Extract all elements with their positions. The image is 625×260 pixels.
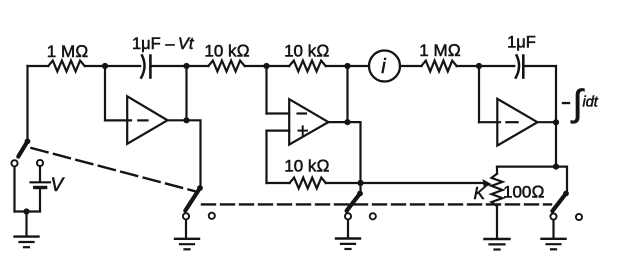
svg-text:1μF – Vt: 1μF – Vt	[132, 35, 195, 53]
wire: R2 to node C	[245, 65, 267, 67]
wire: node G jog right and down through wiper junction to switch S3	[348, 122, 361, 192]
switch S4 alternate contact	[576, 214, 582, 220]
ground (under switch S3)	[336, 239, 360, 250]
wire: ground stem	[25, 212, 27, 236]
wire: ganged-switch linkage (dashed diagonal S1 to S2)	[25, 146, 196, 191]
resistor 10 kΩ (U2 feedback resistor on top rail)	[289, 61, 326, 72]
svg-text:1 MΩ: 1 MΩ	[419, 41, 460, 60]
wire: node F jog right and down to switch S2	[187, 120, 201, 186]
switch S4 pivot contact	[563, 191, 569, 197]
wire: node C to R3	[267, 65, 290, 67]
wire: battery to bottom rail	[39, 189, 41, 211]
ground (battery circuit)	[15, 237, 39, 248]
wire: U1 output to node F	[168, 119, 187, 121]
output label -∫idt	[562, 83, 599, 124]
switch S2 pivot contact	[197, 185, 203, 191]
wire: S2 contact to ground	[185, 220, 187, 238]
op-amp U1 inverting input mark (dash)	[138, 119, 147, 121]
wire: node G up to node D (feedback via R3)	[346, 66, 348, 122]
svg-text:1μF: 1μF	[507, 34, 536, 52]
wire: ganged-switch linkage (dashed horizontal S2 to S4)	[202, 203, 551, 205]
wire: C1 to node B	[152, 65, 186, 67]
potentiometer wiper arrowhead	[483, 179, 492, 188]
wire: node D to ammeter	[348, 65, 370, 67]
svg-text:K: K	[474, 183, 487, 203]
node D (U2 output net on top rail)	[344, 63, 350, 69]
switch S3 alternate contact	[370, 213, 376, 219]
op-amp U2 non-inverting input mark (plus)	[299, 126, 308, 134]
node A (summing junction of op-amp U1)	[102, 63, 108, 69]
switch S1 pivot contact	[25, 138, 31, 144]
op-amp U2 inverting input mark (dash)	[298, 112, 306, 114]
capacitor 1 μF (integrator feedback cap of U3, curved plate)	[516, 55, 519, 77]
resistor 1 MΩ (input resistor, top-left)	[48, 61, 84, 72]
switch S3 blade (open, thrown down-left)	[347, 194, 360, 211]
potentiometer K 100 Ω (vertical resistor body)	[492, 174, 503, 206]
switch S3 pivot contact	[357, 191, 363, 197]
wire: feedback row to R5	[267, 182, 290, 184]
wire: S3 contact to ground	[347, 220, 349, 238]
junction at bottom rail ground tap	[23, 208, 29, 214]
wire: node I jog right and down to switch S4	[556, 167, 567, 192]
ground (under switch S4)	[542, 239, 566, 250]
wire: U3 output to node H	[538, 121, 557, 123]
svg-text:i: i	[381, 56, 386, 78]
wire: U2 inverting input horizontal	[267, 112, 290, 114]
wire: R3 to node D	[326, 65, 348, 67]
op-amp U2 (second amplifier triangle)	[289, 99, 328, 144]
node H (U3 output junction, -∫idt net)	[553, 119, 559, 125]
wire: top rail left segment from input corner to R1	[28, 65, 49, 67]
wire: C2 to top-right corner, down to U3 output	[525, 66, 556, 122]
wire: R4 to node E	[457, 65, 479, 67]
switch S1 fixed contact (to battery ground loop)	[11, 160, 17, 166]
battery V long plate	[31, 181, 51, 183]
wire: node I left to potentiometer top	[497, 166, 556, 168]
wire: U2 non-inverting input horizontal	[267, 130, 290, 132]
op-amp U3 (integrator amplifier triangle)	[497, 99, 537, 146]
svg-text:V: V	[51, 175, 66, 196]
svg-text:idt: idt	[583, 95, 599, 111]
switch S4 fixed contact (to ground)	[550, 213, 556, 219]
wire: feedback from node F up to node B (capacitor C1 net)	[185, 66, 187, 120]
switch S2 blade (open, thrown down-left)	[185, 188, 200, 211]
wire: potentiometer bottom lead to ground	[496, 206, 498, 238]
battery V short plate	[35, 186, 46, 189]
wire: S1 left contact down to bottom rail	[13, 167, 15, 212]
wire: U2 output to node G	[328, 121, 347, 123]
svg-text:100Ω: 100Ω	[503, 183, 544, 202]
wire: node A to capacitor C1	[105, 65, 140, 67]
wire: U3 input horizontal	[479, 121, 500, 123]
wire: node E down to U3 input	[478, 66, 480, 122]
ammeter i (circle meter symbol)	[369, 51, 400, 82]
junction of wiper line with U2 output drop wire	[357, 180, 363, 186]
node F (U1 output junction)	[183, 117, 189, 123]
wire: node E to capacitor C2	[479, 65, 514, 67]
op-amp U3 inverting input mark (dash)	[506, 121, 517, 123]
wire: R1 to node A	[85, 65, 105, 67]
wire: U2 non-inverting input down to positive feedback row	[265, 131, 267, 183]
svg-text:10 kΩ: 10 kΩ	[204, 42, 249, 61]
wire: potentiometer top lead	[496, 167, 498, 174]
node C (U2 inverting input net)	[263, 63, 269, 69]
svg-text:10 kΩ: 10 kΩ	[284, 42, 329, 61]
wire: node C down to U2 inverting input	[265, 66, 267, 114]
wire: feedback row to potentiometer wiper (arrow line)	[326, 182, 485, 184]
switch S2 alternate contact	[209, 213, 215, 219]
wire: S1 right contact down to battery	[39, 166, 41, 181]
wire: ammeter to R4	[400, 65, 421, 67]
wire: S4 contact to ground	[552, 220, 554, 238]
resistor 10 kΩ (positive feedback resistor below U2)	[290, 178, 326, 189]
resistor 10 kΩ (between U1 output and U2 input)	[208, 61, 244, 72]
wire: bottom rail joining battery branch and S1 branch	[15, 210, 41, 212]
op-amp U1 (first amplifier triangle)	[127, 96, 167, 144]
capacitor 1 μF straight plate	[522, 56, 525, 78]
capacitor 1 μF (integrator feedback cap, curved plate)	[141, 55, 144, 77]
node G (U2 output junction)	[344, 119, 350, 125]
svg-text:1 MΩ: 1 MΩ	[47, 42, 88, 61]
switch S3 fixed contact (to ground)	[345, 213, 351, 219]
node B (op-amp U1 output net on top rail)	[183, 63, 189, 69]
switch S2 fixed contact (to ground)	[183, 213, 189, 219]
svg-text:10 kΩ: 10 kΩ	[284, 157, 329, 176]
node I (junction to potentiometer top)	[553, 164, 559, 170]
switch S1 alternate contact (to battery V)	[37, 160, 43, 166]
switch S1 blade (open, thrown down-left)	[18, 141, 27, 156]
ground (under potentiometer)	[485, 239, 510, 250]
wire: node A down to U1 input	[104, 66, 106, 120]
wire: node B to R2	[187, 65, 209, 67]
wire: U1 input horizontal	[105, 119, 131, 121]
wire: node H down to node I	[555, 122, 557, 166]
ground (under switch S2)	[175, 239, 199, 250]
node E (summing junction of op-amp U3)	[476, 63, 482, 69]
capacitor 1 μF straight plate	[149, 56, 152, 78]
resistor 1 MΩ (input resistor of integrator U3)	[421, 61, 456, 72]
wire: left branch from top rail down to switch S1	[26, 66, 28, 141]
switch S4 blade (open, thrown down-left)	[552, 194, 566, 212]
